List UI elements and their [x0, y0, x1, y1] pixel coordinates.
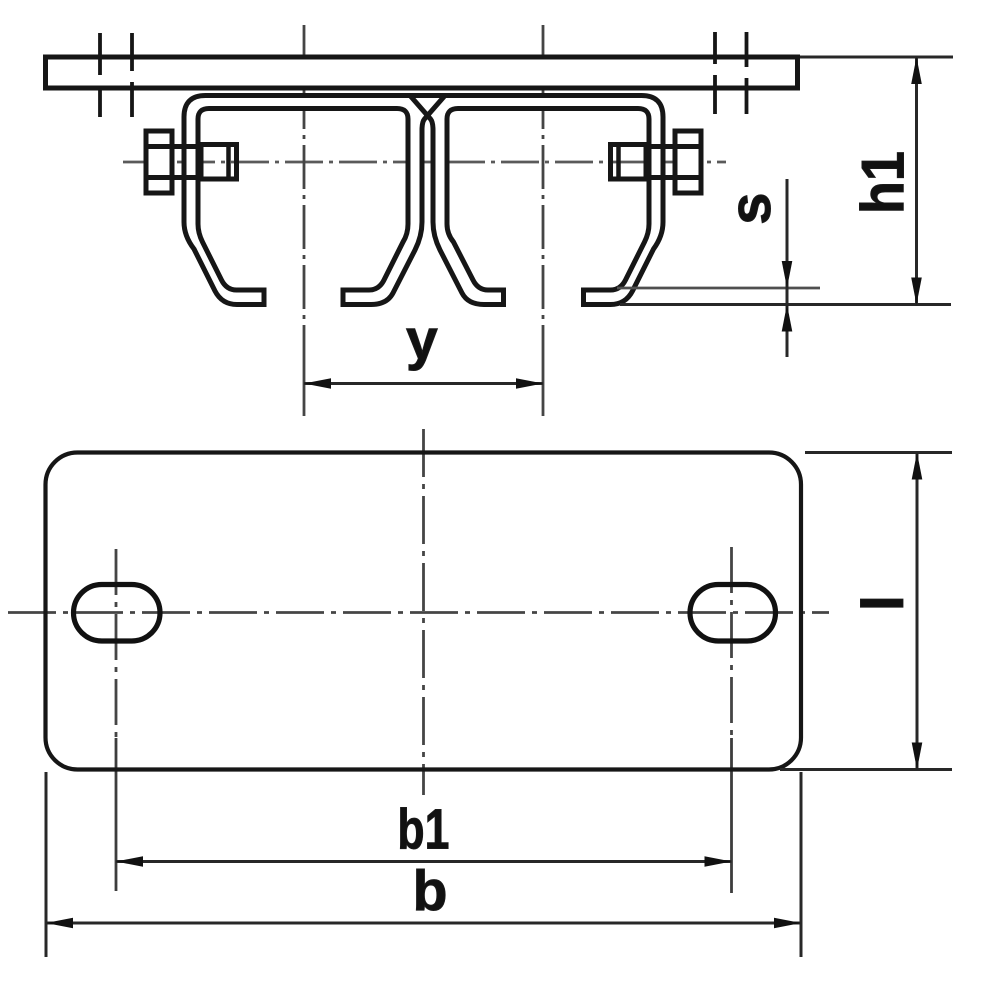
- svg-text:l: l: [851, 595, 916, 611]
- svg-text:h1: h1: [850, 151, 917, 214]
- svg-text:b: b: [413, 859, 448, 923]
- svg-text:y: y: [406, 308, 438, 372]
- svg-text:b1: b1: [397, 798, 449, 862]
- svg-text:s: s: [718, 192, 783, 224]
